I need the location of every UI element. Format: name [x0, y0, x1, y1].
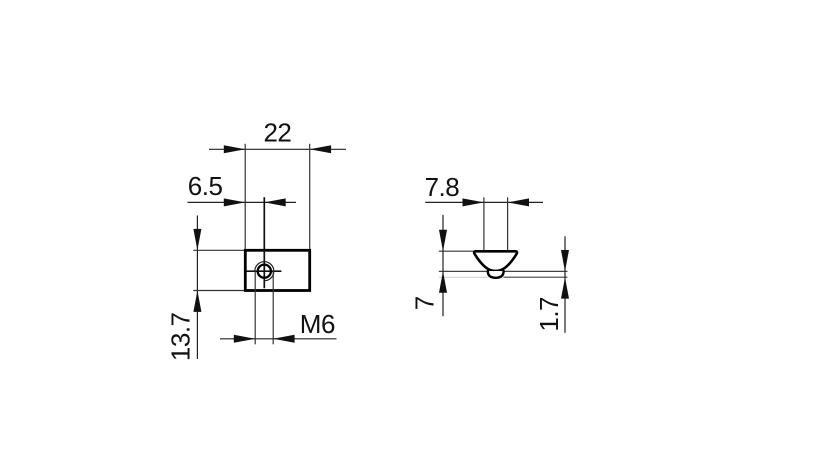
wire: 7.8 extension line right [507, 197, 509, 251]
wire: dimension line 6.5 [188, 201, 297, 203]
wire: extension line left (x=245) [244, 144, 246, 251]
arrow M6 right [273, 335, 294, 343]
svg-text:7: 7 [410, 296, 440, 310]
spring ball bump [488, 271, 504, 278]
wire: dimension line M6 [220, 338, 337, 340]
svg-text:6.5: 6.5 [188, 171, 223, 201]
wire: M6 extension line left [254, 271, 256, 344]
wire: extension line body top [193, 249, 245, 251]
svg-text:1.7: 1.7 [534, 297, 564, 332]
wire: dimension line 7.8 [425, 201, 543, 203]
arrow 1.7 top [561, 250, 569, 271]
wire: extension line right (x=310) [309, 144, 311, 251]
svg-text:M6: M6 [300, 309, 335, 339]
arrow 22 right [310, 145, 331, 153]
wire: dimension line 7 (vertical) [442, 215, 444, 316]
wire: reference line at ball bottom [504, 276, 568, 278]
wire: extension line at profile top [439, 250, 475, 252]
arrow 22 left [224, 145, 245, 153]
arrow 6.5 right [264, 198, 285, 206]
arrow 1.7 bottom [561, 277, 569, 298]
wire: hole horizontal centerline [246, 270, 281, 272]
threaded hole M6: thread arc (outer) [255, 262, 274, 281]
profile outline (cross-section) [474, 251, 517, 271]
wire: extension line body bottom [193, 290, 245, 292]
wire: M6 extension line right [272, 271, 274, 344]
nut body outline (rectangle) [245, 250, 309, 290]
svg-text:22: 22 [263, 118, 291, 148]
wire: dimension line 13.7 (vertical) [196, 216, 198, 360]
wire: hole vertical centerline [263, 197, 265, 288]
svg-text:7.8: 7.8 [425, 172, 460, 202]
arrow 7 bottom [439, 271, 447, 292]
arrow 7 top [439, 230, 447, 251]
wire: faint reference line left of ball [439, 276, 488, 278]
wire: reference line at flange bottom [439, 270, 568, 272]
arrow 7.8 right [508, 198, 529, 206]
arrow M6 left [234, 335, 255, 343]
wire: 7.8 extension line left [483, 197, 485, 251]
arrow 13.7 top [193, 229, 201, 250]
wire: dimension line 1.7 (vertical) [564, 236, 566, 332]
svg-text:13.7: 13.7 [166, 312, 196, 361]
wire: dimension line 22 [209, 148, 346, 150]
threaded hole M6: bore circle [258, 265, 271, 278]
arrow 7.8 left [463, 198, 484, 206]
arrow 13.7 bottom [193, 291, 201, 312]
arrow 6.5 left [224, 198, 245, 206]
